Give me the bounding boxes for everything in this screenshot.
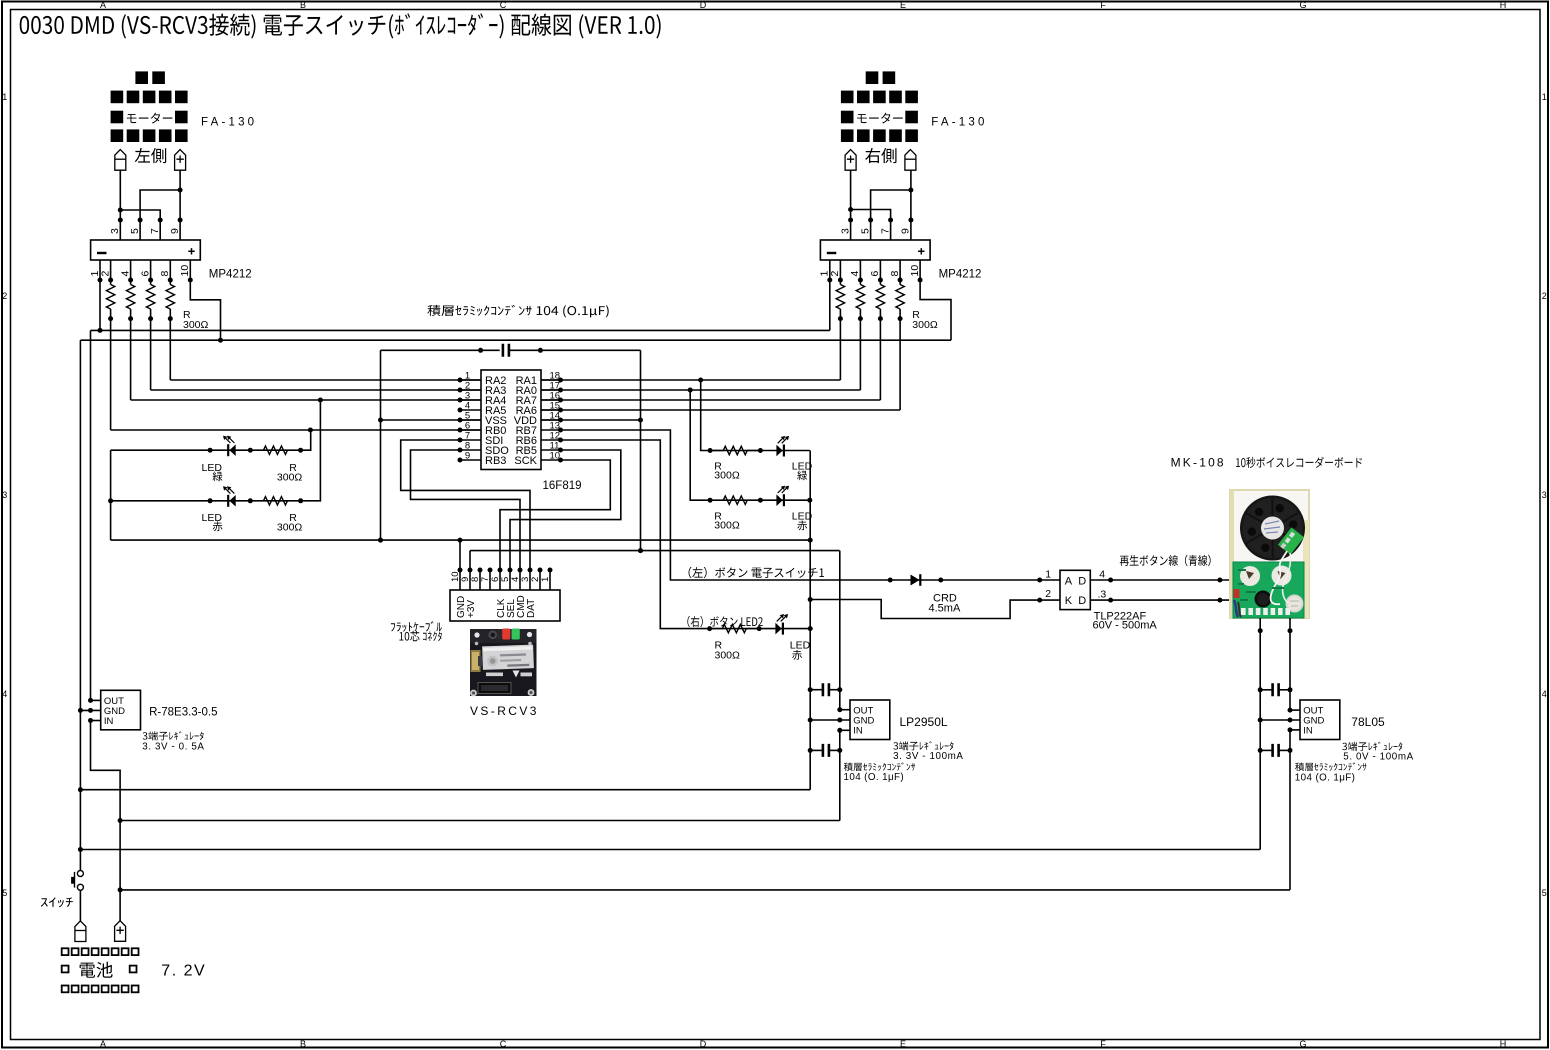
svg-text:16F819: 16F819: [543, 480, 582, 492]
svg-text:D: D: [700, 1039, 707, 1049]
pin 15 RA6 stub: [541, 409, 561, 411]
svg-text:.3: .3: [1098, 589, 1107, 601]
wire right motor + branch to pin7: [851, 210, 891, 241]
resistor R 300ohm (left green): [250, 446, 300, 454]
wire connector GND pin10 to GND bus: [459, 540, 461, 570]
wire LP2950L IN to 7.2V bus: [839, 730, 841, 820]
pin 17 RA0 stub: [541, 389, 561, 391]
svg-text:E: E: [900, 1039, 906, 1049]
pin 9 RB3 stub: [460, 459, 481, 461]
label playback button wire: [1120, 555, 1211, 567]
wire right motor - terminal to MP4212 pin9: [910, 170, 912, 240]
svg-text:D: D: [1078, 575, 1086, 587]
pin 4 RA5 stub: [460, 409, 481, 411]
pin 11 RB5 stub: [541, 449, 561, 451]
connector pin 7 stub: [489, 570, 491, 590]
wire MP4212 pin stub (right pin4): [859, 260, 861, 280]
module VS-RCV3 (photo): [470, 629, 537, 697]
wire 78L05 IN to battery+ bus: [1289, 730, 1291, 890]
transistor array MP4212 (right): [820, 240, 930, 260]
wire 3.3V from bus to LP2950L OUT: [839, 551, 841, 710]
wire 78L05 OUT stub: [1290, 709, 1300, 711]
connector pin 8 stub: [479, 570, 481, 590]
ic U1 16F819: [481, 370, 541, 470]
svg-text:5: 5: [859, 228, 871, 234]
title text: [20, 13, 661, 38]
pin 7 SDI stub: [460, 439, 481, 441]
wire resistor to row (right pin2): [839, 319, 841, 380]
led LED red (right): [783, 494, 785, 506]
svg-text:A: A: [100, 0, 106, 10]
svg-text:D: D: [1078, 595, 1086, 607]
connector CN1 flat cable 10pin: [450, 590, 560, 621]
wire VDD row: [541, 419, 641, 421]
wire TLP pin3 to MK-108: [1090, 599, 1230, 601]
label battery: [80, 962, 113, 978]
connector pin 2 stub: [539, 570, 541, 590]
svg-text:9: 9: [465, 451, 470, 462]
svg-text:4: 4: [119, 271, 131, 277]
battery 7.2V (cell outline): [62, 948, 139, 992]
pin 3 RA4 stub: [460, 399, 481, 401]
motor terminal + (left): [175, 150, 186, 171]
label left button: [689, 567, 824, 578]
label flat cable: [391, 621, 442, 632]
wire 7.2V bus to LP2950L (y=820.5): [120, 820, 840, 822]
svg-text:10: 10: [550, 451, 561, 462]
wire left LED common to GND bus: [110, 450, 112, 540]
svg-text:IN: IN: [853, 726, 863, 737]
board MK-108 (photo): [1230, 490, 1309, 618]
wire R-78E IN stub: [91, 720, 101, 722]
wire red LED row (right): [690, 390, 810, 500]
svg-text:300Ω: 300Ω: [277, 472, 303, 484]
motor FA-130 (left): [111, 71, 188, 142]
svg-text:10: 10: [909, 265, 921, 277]
svg-text:B: B: [300, 1039, 306, 1049]
svg-text:B: B: [300, 0, 306, 10]
wire SDO to connector CMD: [411, 450, 521, 570]
svg-text:+3V: +3V: [466, 600, 477, 618]
wire resistor to row (right pin8): [899, 319, 901, 410]
svg-text:FA-130: FA-130: [201, 116, 257, 128]
wire R-78E IN to 7.2V bus: [91, 721, 121, 921]
wire right motor - branch to pin5: [871, 190, 911, 240]
resistor R 300ohm (left pin6): [150, 280, 152, 285]
svg-text:D: D: [700, 0, 707, 10]
battery terminal +: [115, 921, 126, 942]
svg-text:VS-RCV3: VS-RCV3: [470, 704, 539, 718]
svg-text:2: 2: [2, 291, 7, 301]
label left: [135, 148, 166, 163]
svg-text:3. 3V - 0. 5A: 3. 3V - 0. 5A: [142, 742, 204, 753]
connector pin 5 stub: [509, 570, 511, 590]
wire green LED row (left): [111, 430, 311, 450]
svg-text:E: E: [900, 0, 906, 10]
wire right MP4212 pin1 to 3.3V bus: [829, 260, 831, 330]
led LED green (right): [783, 445, 785, 457]
svg-text:3: 3: [839, 228, 851, 234]
wire GND bus to LP2950L (y=790): [80, 789, 810, 791]
connector pin 10 stub: [459, 570, 461, 590]
wire 78L05 GND stub: [1260, 719, 1300, 721]
wire MK-108 GND to 78L05 GND / battery- bus: [1259, 618, 1261, 850]
resistor R 300ohm (right pin2): [839, 280, 841, 285]
motor terminal - (right): [905, 150, 916, 171]
wire VSS row: [381, 419, 482, 421]
wire MP4212 pin stub (right pin2): [839, 260, 841, 280]
resistor R 300ohm (left red): [250, 497, 300, 505]
svg-text:7: 7: [879, 228, 891, 234]
wire left motor + branch to pin5: [140, 190, 180, 240]
wire resistor to row (left pin4): [130, 319, 132, 400]
svg-text:4: 4: [1099, 569, 1105, 581]
svg-text:4: 4: [2, 689, 7, 699]
label right: [865, 148, 896, 163]
pin 1 RA2 stub: [460, 379, 481, 381]
svg-text:5. 0V - 100mA: 5. 0V - 100mA: [1343, 752, 1413, 763]
resistor R 300ohm (right pin8): [899, 280, 901, 285]
wire resistor to row (left pin8): [169, 319, 171, 380]
svg-text:2: 2: [1542, 291, 1547, 301]
pin 2 RA3 stub: [460, 389, 481, 391]
wire VDD vertical to 3.3V supply bus: [640, 350, 642, 550]
wire right motor + terminal to MP4212 pin3: [850, 170, 852, 240]
wire SCK to connector CLK: [500, 460, 610, 570]
wire R-78E GND stub: [80, 709, 100, 711]
wire resistor to row (right pin4): [859, 319, 861, 390]
led LED2 red: [782, 623, 784, 635]
resistor R 300ohm (right red): [710, 496, 760, 504]
svg-text:H: H: [1500, 0, 1507, 10]
wire 78L05 IN stub: [1290, 729, 1300, 731]
svg-text:H: H: [1500, 1039, 1507, 1049]
label right button LED2: [687, 616, 762, 627]
svg-text:300Ω: 300Ω: [715, 650, 741, 662]
svg-text:IN: IN: [1303, 726, 1313, 737]
svg-text:LED: LED: [202, 512, 223, 524]
svg-text:4: 4: [1542, 689, 1547, 699]
svg-text:LED: LED: [790, 640, 811, 652]
pin 13 RB7 stub: [541, 429, 561, 431]
capacitor C 104 (LP2950L in): [810, 749, 822, 751]
motor terminal - (left): [115, 150, 126, 171]
svg-text:C: C: [500, 1039, 507, 1049]
transistor array MP4212 (left): [91, 240, 201, 260]
svg-text:300Ω: 300Ω: [183, 319, 209, 331]
svg-text:3: 3: [1542, 490, 1547, 500]
battery terminal -: [75, 921, 86, 942]
svg-text:SCK: SCK: [514, 455, 537, 467]
svg-text:104 (O. 1μF): 104 (O. 1μF): [844, 772, 905, 783]
svg-text:C: C: [500, 0, 507, 10]
regulator 78L05: [1300, 700, 1340, 740]
resistor R 300ohm (right pin4): [859, 280, 861, 285]
wire R-78E OUT stub: [91, 699, 101, 701]
svg-text:10: 10: [179, 265, 191, 277]
svg-text:5: 5: [2, 888, 7, 898]
wire right MP4212 pin10 to battery bus: [920, 260, 951, 340]
svg-text:LP2950L: LP2950L: [900, 715, 948, 729]
wire RB0 row (left MP4212 pin2): [111, 429, 481, 431]
pin 5 VSS stub: [460, 419, 481, 421]
svg-text:F: F: [1100, 1039, 1106, 1049]
wire 3.3V bus (y=550.6): [470, 550, 840, 552]
svg-text:1: 1: [2, 92, 7, 102]
svg-text:2: 2: [829, 271, 841, 277]
wire RA7 row (right MP4212 pin6): [541, 399, 880, 401]
svg-text:IN: IN: [104, 716, 114, 727]
pin 8 SDO stub: [460, 449, 481, 451]
wire GND left vertical (bus to battery -): [79, 340, 81, 870]
wire MP4212 pin stub (right pin8): [899, 260, 901, 280]
wire MP4212 pin stub (right pin6): [879, 260, 881, 280]
svg-text:F: F: [1100, 0, 1106, 10]
wire resistor to row (left pin6): [150, 319, 152, 390]
connector pin 3 stub: [529, 570, 531, 590]
svg-text:2: 2: [1045, 588, 1051, 600]
svg-text:3. 3V - 100mA: 3. 3V - 100mA: [893, 751, 963, 762]
wire switch to battery -: [79, 890, 81, 921]
regulator R-78E3.3-0.5: [101, 690, 141, 730]
svg-text:9: 9: [900, 228, 912, 234]
svg-text:A: A: [1065, 575, 1073, 587]
svg-text:6: 6: [869, 271, 881, 277]
wire MP4212 pin stub (left pin8): [169, 260, 171, 280]
svg-text:G: G: [1299, 0, 1306, 10]
capacitor C 104 (PIC bypass): [381, 349, 500, 351]
connector pin 6 stub: [499, 570, 501, 590]
resistor R 300ohm (right pin6): [879, 280, 881, 285]
wire MK-108 +5V to 78L05 OUT: [1289, 618, 1291, 710]
wire left motor + terminal to MP4212 pin9: [179, 170, 181, 240]
wire MP4212 pin stub (left pin2): [110, 260, 112, 280]
wire LP2950L OUT stub: [840, 709, 850, 711]
wire RA3 row (left MP4212 pin6): [151, 389, 481, 391]
svg-text:3: 3: [109, 228, 121, 234]
svg-text:1: 1: [1542, 92, 1547, 102]
pin 16 RA7 stub: [541, 399, 561, 401]
wire left MP4212 pin1 to 3.3V bus: [99, 260, 101, 330]
capacitor C 104 (78L05 in): [1260, 749, 1271, 751]
svg-text:8: 8: [889, 271, 901, 277]
wire battery bus (MP4212 pin10 to pin10): [80, 339, 951, 341]
svg-text:9: 9: [169, 228, 181, 234]
svg-text:8: 8: [159, 271, 171, 277]
capacitor C 104 (LP2950L out): [810, 689, 822, 691]
wire VSS vertical to GND bus: [380, 350, 382, 540]
wire MP4212 pin stub (left pin4): [130, 260, 132, 280]
switch SW1 (push): [77, 871, 83, 877]
svg-text:4: 4: [849, 271, 861, 277]
wire battery+ bus to 78L05 IN (y=889.9): [120, 889, 1290, 891]
pin 10 SCK stub: [541, 459, 561, 461]
svg-text:3: 3: [2, 490, 7, 500]
capacitor C 104 (78L05 out): [1260, 689, 1271, 691]
pin 6 RB0 stub: [460, 429, 481, 431]
wire RB5 to connector SEL: [510, 450, 621, 570]
svg-text:4.5mA: 4.5mA: [929, 603, 961, 615]
svg-text:K: K: [1065, 595, 1073, 607]
wire battery- bus to 78L05 GND (y=849.5): [80, 849, 1260, 851]
svg-text:R-78E3.3-0.5: R-78E3.3-0.5: [149, 707, 217, 719]
connector pin 4 stub: [519, 570, 521, 590]
wire RB7 to left-button (electronic switch) line: [561, 430, 1061, 580]
wire 3.3V bus (MP4212 pin1 to pin1): [91, 329, 830, 331]
wire 3.3V left vertical (bus to R-78E OUT): [90, 330, 92, 700]
resistor R 300ohm (left pin4): [130, 280, 132, 285]
wire RA6 row (right MP4212 pin8): [541, 409, 900, 411]
wire left motor - terminal to MP4212 pin3: [119, 170, 121, 240]
motor FA-130 (right): [841, 71, 918, 142]
photocoupler TLP222AF: [1060, 570, 1090, 609]
svg-text:300Ω: 300Ω: [912, 319, 938, 331]
resistor R 300ohm (left pin8): [169, 280, 171, 285]
svg-text:MP4212: MP4212: [209, 268, 252, 280]
wire left motor - branch to pin7: [120, 210, 160, 240]
svg-text:7. 2V: 7. 2V: [161, 963, 206, 980]
label capacitor 104 (top): [427, 305, 608, 318]
svg-text:300Ω: 300Ω: [714, 470, 740, 482]
svg-text:A: A: [100, 1039, 106, 1049]
motor terminal + (right): [845, 150, 856, 171]
pin 12 RB6 stub: [541, 439, 561, 441]
wire RA0 row (right MP4212 pin4): [541, 389, 860, 391]
svg-text:7: 7: [149, 228, 161, 234]
wire connector +3V pin9 to 3.3V bus: [469, 551, 471, 570]
diode CRD 4.5mA: [911, 575, 920, 586]
resistor R 300ohm (right green): [710, 446, 760, 454]
wire left MP4212 pin10 to battery bus: [190, 260, 220, 340]
led LED red (left): [227, 495, 229, 507]
regulator LP2950L: [850, 700, 890, 740]
svg-text:78L05: 78L05: [1351, 715, 1385, 729]
wire SDI to connector DAT: [401, 440, 530, 570]
svg-text:5: 5: [1542, 888, 1547, 898]
svg-text:RB3: RB3: [485, 455, 506, 467]
wire green LED row (right): [701, 380, 810, 451]
wire resistor to row (right pin6): [879, 319, 881, 400]
svg-text:5: 5: [129, 228, 141, 234]
svg-text:DAT: DAT: [526, 599, 537, 618]
svg-text:MK-108: MK-108: [1171, 456, 1226, 470]
resistor R 300ohm (LED2): [710, 624, 760, 632]
pin 18 RA1 stub: [541, 379, 561, 381]
wire GND vertical (LED cathodes to LP2950L GND): [809, 451, 811, 790]
led LED green (left): [227, 444, 229, 456]
svg-text:1: 1: [1045, 569, 1051, 581]
connector pin 1 stub: [549, 570, 551, 590]
wire RB6 to right-button LED2 line: [561, 440, 811, 629]
svg-text:G: G: [1299, 1039, 1306, 1049]
label switch: [41, 897, 73, 907]
wire MP4212 pin stub (left pin6): [150, 260, 152, 280]
svg-text:6: 6: [139, 271, 151, 277]
wire resistor to row (left pin2): [110, 319, 112, 430]
wire RA1 row (right MP4212 pin2): [541, 379, 840, 381]
wire TLP pin2 to GND (jog around CRD label): [810, 600, 1060, 619]
wire red LED row (left): [111, 400, 321, 501]
wire GND bus (y=540): [111, 539, 811, 541]
pin 14 VDD stub: [541, 419, 561, 421]
svg-text:1: 1: [540, 577, 551, 582]
connector pin 9 stub: [469, 570, 471, 590]
svg-text:FA-130: FA-130: [931, 116, 987, 128]
wire LP2950L GND stub: [810, 719, 850, 721]
svg-text:300Ω: 300Ω: [277, 522, 303, 534]
wire TLP pin4 to MK-108: [1090, 579, 1230, 581]
svg-text:2: 2: [99, 271, 111, 277]
resistor R 300ohm (left pin2): [110, 280, 112, 285]
svg-text:300Ω: 300Ω: [714, 520, 740, 532]
svg-text:MP4212: MP4212: [939, 268, 982, 280]
wire RA2 row (left MP4212 pin8): [170, 379, 481, 381]
wire RA4 row (left MP4212 pin4): [131, 399, 481, 401]
svg-text:60V - 500mA: 60V - 500mA: [1093, 619, 1158, 631]
wire LP2950L IN stub: [840, 729, 850, 731]
svg-text:104 (O. 1μF): 104 (O. 1μF): [1295, 773, 1356, 784]
